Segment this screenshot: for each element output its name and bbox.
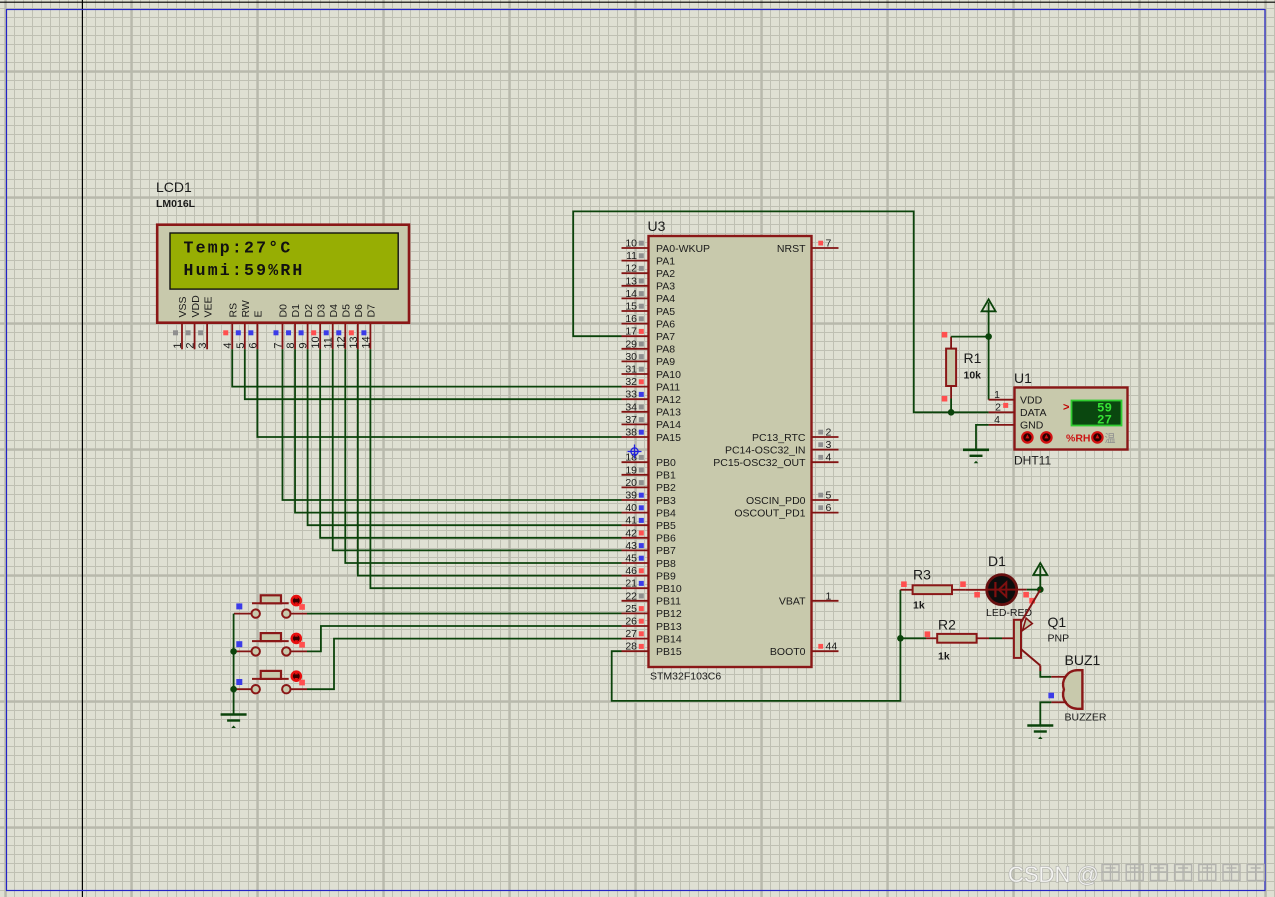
R2 value label 1k [938, 651, 950, 663]
svg-text:PA14: PA14 [656, 419, 681, 431]
U3 pin 14 PA4 [622, 288, 676, 305]
svg-text:PB8: PB8 [656, 558, 676, 570]
wire LCD RS to U3 PA11 [232, 349, 621, 386]
U3 pin 3 PC14-OSC32_IN [725, 439, 839, 456]
svg-text:2: 2 [185, 342, 197, 348]
svg-text:VSS: VSS [177, 296, 189, 317]
sheet left edge black line [81, 0, 83, 897]
svg-text:PNP: PNP [1048, 633, 1070, 645]
svg-text:46: 46 [625, 565, 637, 577]
svg-text:32: 32 [625, 376, 637, 388]
BUZ1 reference label [1065, 652, 1101, 668]
U1 reference label [1014, 370, 1032, 386]
U3 pin 11 PA1 [622, 250, 676, 267]
U3 pin 13 PA3 [622, 275, 676, 292]
DHT11 green display [1072, 401, 1122, 426]
svg-text:PA12: PA12 [656, 394, 681, 406]
U3 pin 42 PB6 [622, 527, 677, 544]
svg-text:5: 5 [235, 342, 247, 348]
svg-text:PA2: PA2 [656, 268, 675, 280]
LCD1 pin 5 RW [235, 300, 252, 349]
svg-text:D4: D4 [328, 304, 340, 318]
svg-text:U3: U3 [648, 218, 666, 234]
svg-text:D0: D0 [278, 304, 290, 318]
DHT11 down knob [1022, 432, 1032, 442]
svg-text:PA5: PA5 [656, 306, 675, 318]
wire LCD D1 to U3 PB4 [295, 349, 621, 512]
U3 pin 45 PB8 [622, 553, 677, 570]
svg-text:D5: D5 [340, 304, 352, 318]
svg-text:30: 30 [625, 351, 637, 363]
wire R1 bottom to junction [950, 399, 952, 413]
svg-text:33: 33 [625, 389, 637, 401]
wire DHT11 GND to ground [976, 425, 989, 449]
ground symbol (DHT11) [963, 450, 989, 464]
svg-text:PC14-OSC32_IN: PC14-OSC32_IN [725, 444, 806, 456]
svg-text:6: 6 [826, 502, 832, 514]
U3 pin 32 PA11 [622, 376, 681, 393]
LCD1 pin 6 E [247, 310, 264, 349]
U3 pin 33 PA12 [622, 389, 682, 406]
U3 pin 5 OSCIN_PD0 [746, 490, 839, 507]
svg-text:31: 31 [625, 364, 637, 376]
DHT11 arrow marker [1063, 402, 1069, 414]
LCD1 pin 12 D5 [335, 304, 352, 349]
svg-text:13: 13 [625, 275, 637, 287]
U3 pin 1 VBAT [779, 590, 839, 607]
svg-text:25: 25 [625, 603, 637, 615]
svg-text:PA1: PA1 [656, 255, 675, 267]
svg-text:11: 11 [626, 250, 637, 262]
svg-text:10k: 10k [964, 370, 982, 382]
wire buttons common to ground [233, 614, 235, 714]
R3 value label 1k [913, 600, 925, 612]
DHT11 RH knob [1092, 432, 1102, 442]
svg-text:PB12: PB12 [656, 608, 682, 620]
U3 pin 15 PA5 [622, 301, 676, 318]
svg-text:PC15-OSC32_OUT: PC15-OSC32_OUT [713, 457, 806, 469]
wire buzzer to ground [1040, 702, 1051, 725]
U1 pin 4 GND [989, 414, 1044, 432]
svg-text:PB4: PB4 [656, 507, 676, 519]
svg-text:PB9: PB9 [656, 570, 676, 582]
U3 pin 41 PB5 [622, 515, 677, 532]
svg-text:6: 6 [247, 342, 259, 348]
LCD1 pin 14 D7 [360, 304, 377, 349]
wire junction button2 [230, 648, 237, 655]
U3 pin 7 NRST [777, 238, 839, 255]
Q1 emitter [1021, 590, 1041, 623]
wire R2 to Q1 base [989, 637, 1002, 639]
svg-text:LM016L: LM016L [156, 198, 196, 210]
svg-text:PB14: PB14 [656, 633, 682, 645]
svg-text:D7: D7 [366, 304, 378, 318]
svg-text:2: 2 [995, 401, 1001, 413]
wire LCD E to U3 PA15 [257, 349, 621, 437]
U3 pin 19 PB1 [622, 464, 677, 481]
svg-text:OSCIN_PD0: OSCIN_PD0 [746, 495, 806, 507]
U3 pin 21 PB10 [622, 578, 682, 595]
U1 pin 1 VDD [989, 389, 1043, 407]
svg-text:PA6: PA6 [656, 318, 675, 330]
U3 pin 6 OSCOUT_PD1 [734, 502, 838, 519]
svg-text:R2: R2 [938, 617, 956, 633]
wire junction R1 bottom / DATA [948, 409, 955, 416]
buzzer BUZ1 body [1063, 670, 1082, 709]
sensor U1 DHT11 body [1015, 388, 1128, 450]
R1 value label 10k [964, 370, 982, 382]
wire U3 PA7 to DHT11 DATA (via top) [573, 211, 951, 412]
svg-text:42: 42 [625, 527, 637, 539]
LCD1 pin 9 D2 [298, 304, 315, 349]
wire power to VDD [988, 311, 990, 399]
LCD1 pin 2 VDD [185, 295, 202, 349]
wire R1 top to power rail [951, 336, 989, 338]
svg-text:CSDN @: CSDN @ [1008, 862, 1099, 887]
DHT11 %RH label [1066, 432, 1091, 444]
LCD1 pin 10 D3 [310, 304, 327, 349]
svg-text:PB5: PB5 [656, 520, 676, 532]
Q1 collector [1021, 649, 1041, 666]
U3 reference label [648, 218, 666, 234]
svg-text:D3: D3 [315, 304, 327, 318]
svg-text:1: 1 [172, 342, 184, 348]
U3 pin 22 PB11 [622, 590, 682, 607]
wire LCD D6 to U3 PB9 [358, 349, 622, 575]
svg-text:21: 21 [625, 578, 637, 590]
power terminal VCC (Q1) [1033, 563, 1047, 577]
svg-text:38: 38 [625, 427, 637, 439]
wire Q1 collector to buzzer [1040, 671, 1051, 677]
svg-text:D2: D2 [303, 304, 315, 318]
svg-text:22: 22 [625, 590, 637, 602]
power terminal VCC (R1/DHT11) [982, 299, 996, 313]
wire LCD D7 to U3 PB10 [370, 349, 621, 588]
wire LCD D5 to U3 PB8 [345, 349, 621, 563]
sheet top edge black line [0, 1, 1275, 3]
svg-text:9: 9 [298, 342, 310, 348]
D1 value label LED-RED [986, 607, 1033, 619]
U3 pin 31 PA10 [622, 364, 682, 381]
D1 left pin marker [974, 592, 980, 598]
LCD1 pin 3 VEE [197, 296, 214, 349]
svg-text:RW: RW [240, 300, 252, 317]
svg-text:PA9: PA9 [656, 356, 675, 368]
ground symbol (buttons) [221, 715, 247, 729]
R2 right pin [977, 637, 989, 639]
svg-text:12: 12 [625, 263, 637, 275]
svg-text:DHT11: DHT11 [1014, 454, 1051, 468]
svg-text:4: 4 [994, 414, 1000, 426]
svg-text:PA10: PA10 [656, 369, 681, 381]
svg-text:40: 40 [625, 502, 637, 514]
svg-text:PB6: PB6 [656, 533, 676, 545]
resistor R3 body [913, 585, 952, 594]
U1 value label DHT11 [1014, 454, 1051, 468]
svg-text:GND: GND [1020, 420, 1044, 432]
Q1 base pin [1002, 637, 1014, 639]
svg-text:29: 29 [625, 338, 637, 350]
svg-text:Humi:59%RH: Humi:59%RH [184, 261, 305, 280]
wire D1 to power junction [1027, 589, 1041, 591]
U3 pin 17 PA7 [622, 326, 676, 343]
DHT11 display value 27 [1097, 414, 1112, 428]
svg-text:D1: D1 [290, 304, 302, 318]
U3 pin 4 PC15-OSC32_OUT [713, 452, 838, 469]
svg-text:R1: R1 [964, 350, 982, 366]
svg-text:1k: 1k [913, 600, 925, 612]
svg-text:2: 2 [826, 427, 832, 439]
svg-text:U1: U1 [1014, 370, 1032, 386]
svg-text:13: 13 [348, 336, 360, 348]
LCD1 pin 13 D6 [348, 304, 365, 349]
U3 pin 44 BOOT0 [770, 641, 839, 658]
wire button2 to U3 PB13 [307, 626, 622, 651]
svg-text:1: 1 [994, 389, 1000, 401]
BUZ1 value label BUZZER [1065, 712, 1107, 724]
U3 pin 2 PC13_RTC [752, 427, 839, 444]
svg-text:34: 34 [625, 401, 637, 413]
svg-text:PB7: PB7 [656, 545, 676, 557]
R3 reference label [913, 567, 931, 583]
push button 3 [234, 671, 307, 694]
svg-text:PB15: PB15 [656, 646, 682, 658]
U3 value label STM32F103C6 [650, 671, 721, 683]
svg-text:PA13: PA13 [656, 407, 681, 419]
svg-text:27: 27 [625, 628, 637, 640]
svg-text:PB10: PB10 [656, 583, 682, 595]
svg-text:PA3: PA3 [656, 281, 675, 293]
svg-text:LCD1: LCD1 [156, 179, 192, 195]
R2 reference label [938, 617, 956, 633]
D1 right pin markers [1023, 592, 1035, 604]
svg-text:10: 10 [310, 336, 322, 348]
LCD1 pin 1 VSS [172, 296, 189, 349]
U3 pin 25 PB12 [622, 603, 682, 620]
svg-text:PA15: PA15 [656, 432, 681, 444]
svg-text:43: 43 [625, 540, 637, 552]
push button 2 [234, 633, 307, 656]
wire LCD D2 to U3 PB5 [308, 349, 622, 525]
svg-text:20: 20 [625, 477, 637, 489]
U3 pin 30 PA9 [622, 351, 676, 368]
svg-text:VDD: VDD [190, 295, 202, 318]
svg-text:NRST: NRST [777, 243, 806, 255]
wire U3 PB15 to R3/R2 junction [612, 590, 901, 701]
svg-text:10: 10 [625, 238, 637, 250]
svg-text:1k: 1k [938, 651, 950, 663]
svg-text:16: 16 [625, 313, 637, 325]
svg-text:BUZ1: BUZ1 [1065, 652, 1101, 668]
svg-text:3: 3 [197, 342, 209, 348]
LED D1 LED-RED [987, 575, 1017, 605]
wire junction D1/Q1 emitter/power [1037, 586, 1044, 593]
svg-text:45: 45 [625, 553, 637, 565]
D1 reference label [988, 553, 1006, 569]
svg-text:8: 8 [285, 342, 297, 348]
U3 origin marker crosshair [628, 445, 642, 459]
svg-text:15: 15 [625, 301, 637, 313]
svg-text:37: 37 [625, 414, 637, 426]
BUZ1 top pin [1051, 676, 1066, 678]
wire button1 to U3 PB12 [307, 612, 622, 614]
wire button3 to U3 PB14 [307, 639, 622, 690]
svg-text:1: 1 [826, 590, 832, 602]
DHT11 up knob [1041, 432, 1051, 442]
svg-text:PA7: PA7 [656, 331, 675, 343]
svg-text:D6: D6 [353, 304, 365, 318]
svg-text:PA0-WKUP: PA0-WKUP [656, 243, 710, 255]
svg-text:PA4: PA4 [656, 293, 675, 305]
wire LCD D3 to U3 PB6 [320, 349, 621, 538]
R1 bottom pin [942, 386, 951, 402]
U3 pin 20 PB2 [622, 477, 677, 494]
svg-text:Temp:27°C: Temp:27°C [184, 239, 293, 258]
wire junction power/R1 [985, 333, 992, 340]
svg-text:3: 3 [826, 439, 832, 451]
svg-text:VDD: VDD [1020, 395, 1043, 407]
svg-text:PB0: PB0 [656, 457, 676, 469]
BUZ1 bottom pin [1048, 693, 1067, 703]
svg-text:7: 7 [272, 342, 284, 348]
svg-text:14: 14 [360, 336, 372, 348]
svg-text:27: 27 [1097, 414, 1112, 428]
U3 pin 12 PA2 [622, 263, 676, 280]
svg-text:26: 26 [625, 616, 637, 628]
LCD1 value label LM016L [156, 198, 196, 210]
svg-text:PB3: PB3 [656, 495, 676, 507]
U3 pin 40 PB4 [622, 502, 677, 519]
svg-text:VEE: VEE [202, 296, 214, 317]
U3 pin 37 PA14 [622, 414, 682, 431]
transistor Q1 PNP body bar [1014, 620, 1021, 658]
U3 pin 34 PA13 [622, 401, 682, 418]
U3 pin 18 PB0 [622, 452, 677, 469]
svg-text:PA11: PA11 [656, 381, 680, 393]
R1 reference label [964, 350, 982, 366]
svg-text:%RH: %RH [1066, 432, 1091, 444]
U3 pin 38 PA15 [622, 427, 682, 444]
ground symbol (buzzer) [1027, 726, 1053, 740]
U3 pin 10 PA0-WKUP [622, 238, 711, 255]
svg-text:12: 12 [335, 336, 347, 348]
LCD1 pin 8 D1 [285, 304, 302, 349]
U3 pin 39 PB3 [622, 490, 677, 507]
svg-text:PB11: PB11 [656, 596, 681, 608]
LCD green screen [170, 233, 398, 289]
U3 pin 46 PB9 [622, 565, 677, 582]
wire junction button3 [230, 686, 237, 693]
svg-text:17: 17 [625, 326, 637, 338]
svg-text:PB2: PB2 [656, 482, 676, 494]
D1 left pin [965, 589, 986, 591]
watermark CJK characters [1102, 865, 1264, 881]
R3 left pin [900, 581, 912, 589]
LCD1 pin 7 D0 [272, 304, 289, 349]
R2 left pin [925, 631, 938, 638]
U1 pin 2 DATA [989, 401, 1047, 419]
svg-text:28: 28 [625, 641, 637, 653]
svg-text:4: 4 [826, 452, 832, 464]
svg-text:>: > [1063, 402, 1069, 414]
LCD1 pin 4 RS [222, 303, 239, 349]
resistor R1 body [946, 349, 956, 386]
svg-text:PB13: PB13 [656, 621, 682, 633]
svg-text:PA8: PA8 [656, 344, 675, 356]
wire junction to R2 [900, 637, 926, 639]
svg-text:PB1: PB1 [656, 470, 676, 482]
wire power to junction [1039, 575, 1041, 590]
svg-text:19: 19 [625, 464, 637, 476]
wire junction R3/R2 [897, 635, 904, 642]
LCD1 reference label [156, 179, 192, 195]
svg-text:温: 温 [1105, 432, 1116, 445]
U3 pin 26 PB13 [622, 616, 682, 633]
svg-text:44: 44 [826, 641, 838, 653]
svg-text:11: 11 [323, 337, 335, 348]
R3 right pin [952, 581, 966, 589]
U3 pin 16 PA6 [622, 313, 676, 330]
DHT11 gray glyph [1105, 432, 1116, 445]
svg-text:VBAT: VBAT [779, 596, 806, 608]
Q1 reference label [1048, 614, 1067, 630]
LCD display LCD1 body [157, 225, 409, 323]
D1 right pin [1017, 589, 1027, 591]
U3 pin 43 PB7 [622, 540, 677, 557]
R1 top pin [942, 332, 951, 349]
resistor R2 body [937, 634, 976, 643]
DHT11 display value 59 [1097, 402, 1112, 416]
wire LCD D0 to U3 PB3 [282, 349, 621, 500]
svg-text:5: 5 [826, 490, 832, 502]
wire DATA segment [951, 411, 989, 413]
svg-text:DATA: DATA [1020, 407, 1046, 419]
svg-text:RS: RS [227, 303, 239, 318]
microcontroller U3 STM32F103C6 body [649, 236, 812, 667]
svg-text:Q1: Q1 [1048, 614, 1067, 630]
svg-text:E: E [253, 310, 265, 317]
Q1 value label PNP [1048, 633, 1070, 645]
U3 pin 28 PB15 [622, 641, 682, 658]
svg-text:14: 14 [625, 288, 637, 300]
svg-text:39: 39 [625, 490, 637, 502]
wire LCD D4 to U3 PB7 [333, 349, 622, 550]
svg-text:R3: R3 [913, 567, 931, 583]
svg-text:7: 7 [826, 238, 832, 250]
LCD1 pin 11 D4 [323, 304, 340, 349]
svg-text:STM32F103C6: STM32F103C6 [650, 671, 721, 683]
U3 pin 29 PA8 [622, 338, 676, 355]
svg-text:OSCOUT_PD1: OSCOUT_PD1 [734, 507, 805, 519]
svg-text:4: 4 [222, 342, 234, 348]
svg-text:BUZZER: BUZZER [1065, 712, 1107, 724]
svg-text:PC13_RTC: PC13_RTC [752, 432, 806, 444]
U3 pin 27 PB14 [622, 628, 682, 645]
svg-text:D1: D1 [988, 553, 1006, 569]
svg-text:41: 41 [625, 515, 637, 527]
push button 1 [234, 595, 307, 618]
wire LCD RW to U3 PA12 [245, 349, 622, 399]
svg-text:BOOT0: BOOT0 [770, 646, 806, 658]
